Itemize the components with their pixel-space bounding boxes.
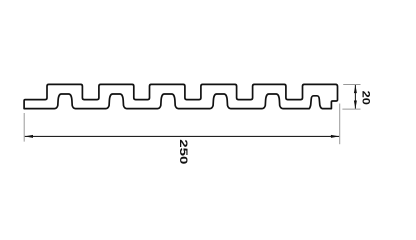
arrowhead up (20) xyxy=(354,85,357,93)
profile outline (slat panel cross-section) xyxy=(24,84,337,108)
arrowhead down (20) xyxy=(354,101,357,109)
extension line left (250 dim) xyxy=(23,113,25,142)
dimension line 250 xyxy=(25,135,339,137)
extension line right (250 dim) xyxy=(339,104,341,145)
extension line bottom (20 dim) xyxy=(342,108,360,110)
arrowhead left (250) xyxy=(25,135,33,138)
svg-text:20: 20 xyxy=(359,91,371,105)
arrowhead right (250) xyxy=(331,135,339,138)
extension line top (20 dim) xyxy=(343,84,360,86)
svg-text:250: 250 xyxy=(177,139,189,164)
dimension line 20 xyxy=(354,85,356,109)
